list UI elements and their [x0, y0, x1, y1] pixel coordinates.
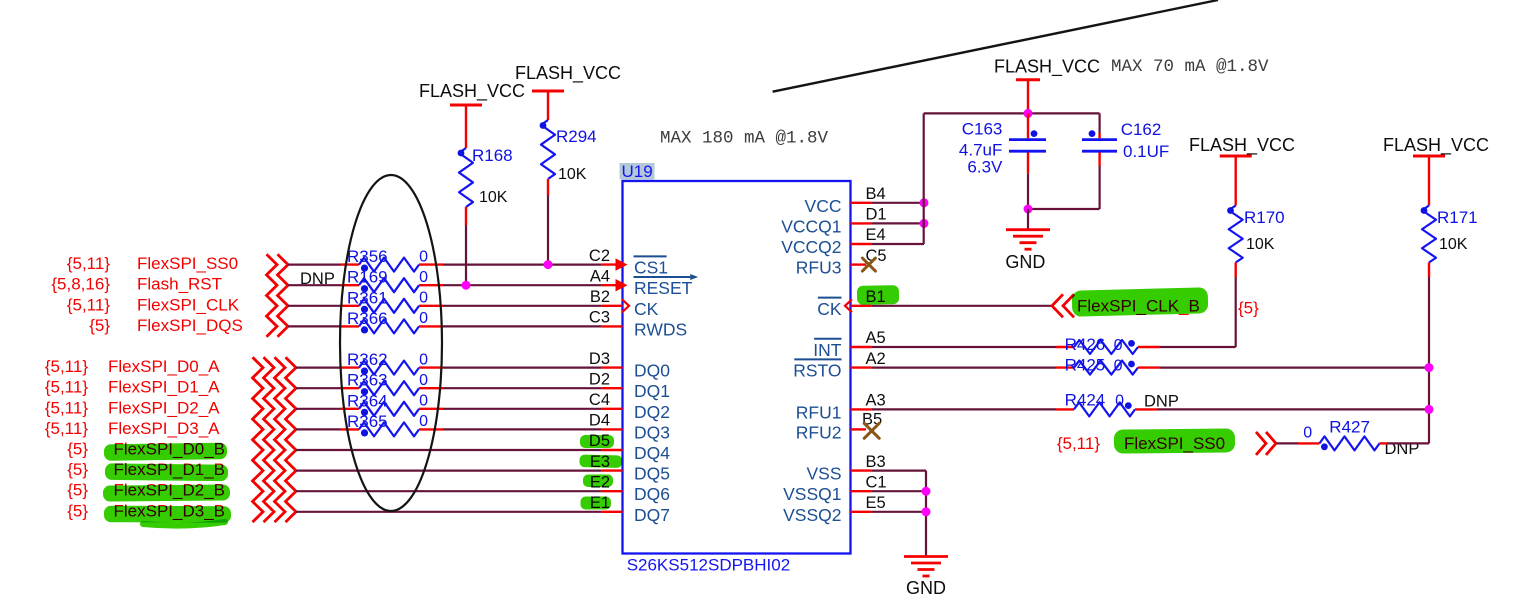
pin D5 stub	[602, 449, 623, 451]
svg-text:{5,8,16}: {5,8,16}	[51, 275, 110, 294]
svg-text:MAX 70 mA @1.8V: MAX 70 mA @1.8V	[1111, 57, 1269, 77]
resistor R170 10K	[1227, 206, 1285, 278]
svg-text:RESET: RESET	[634, 278, 693, 298]
svg-text:{5,11}: {5,11}	[67, 295, 111, 314]
svg-text:INT: INT	[813, 340, 842, 360]
wire D1_B	[296, 470, 602, 472]
resistor R363 0 ohm	[341, 371, 444, 396]
svg-text:D3: D3	[589, 350, 610, 368]
svg-text:A2: A2	[866, 350, 886, 368]
svg-text:0: 0	[419, 248, 428, 265]
wire to GND	[1027, 209, 1029, 230]
svg-text:FlexSPI_D1_A: FlexSPI_D1_A	[108, 378, 220, 397]
svg-text:R294: R294	[556, 127, 597, 146]
junction FLASH_VCC rail	[1024, 109, 1033, 118]
svg-text:{5,11}: {5,11}	[1057, 434, 1101, 453]
svg-text:DQ0: DQ0	[634, 361, 670, 381]
svg-text:10K: 10K	[1246, 236, 1275, 253]
U19 reference designator	[620, 163, 655, 180]
pin D1 stub	[851, 222, 872, 224]
svg-text:CK: CK	[817, 299, 842, 319]
wire CK_B	[871, 305, 1052, 307]
resistor R427 0 ohm	[1303, 418, 1379, 451]
resistor R365 0 ohm	[341, 412, 444, 437]
wire VCC to rail	[871, 202, 924, 204]
svg-text:0: 0	[419, 351, 428, 368]
wire D2_B	[296, 490, 602, 492]
svg-text:{5,11}: {5,11}	[67, 254, 111, 273]
svg-text:RFU3: RFU3	[796, 258, 842, 278]
wire row1 left	[288, 264, 341, 266]
svg-text:0: 0	[419, 393, 428, 410]
wire row3 left	[288, 305, 341, 307]
svg-text:{5}: {5}	[1238, 299, 1259, 318]
svg-text:U19: U19	[622, 162, 653, 181]
svg-text:0.1UF: 0.1UF	[1123, 142, 1169, 161]
svg-text:6.3V: 6.3V	[967, 158, 1003, 177]
wire row2 left	[288, 284, 341, 286]
pin B5 stub	[851, 428, 867, 430]
wire row3 right	[443, 305, 602, 307]
resistor R169 0 ohm	[341, 268, 444, 293]
svg-text:0: 0	[419, 269, 428, 286]
wire D0_B	[296, 449, 602, 451]
pin E3 stub	[602, 469, 623, 471]
svg-text:DQ4: DQ4	[634, 443, 670, 463]
junction VCCQ1 rail	[920, 219, 929, 228]
wire D3_B	[296, 511, 602, 513]
wire R426 to R170	[1138, 346, 1160, 348]
wire VSS	[871, 470, 926, 472]
svg-text:C163: C163	[962, 120, 1003, 139]
capacitor C162 0.1UF	[1082, 113, 1169, 209]
svg-text:FLASH_VCC: FLASH_VCC	[1189, 135, 1295, 156]
svg-text:R363: R363	[347, 371, 388, 390]
off-page connector FlexSPI_CLK_B	[1052, 294, 1063, 317]
wire RSTO to R425	[871, 367, 1056, 369]
off-page connector FlexSPI_SS0 out	[1256, 432, 1266, 455]
pin D4 stub	[602, 428, 623, 430]
ground symbol GND (VSS)	[904, 555, 948, 558]
junction R168/Flash_RST	[462, 281, 471, 290]
svg-text:FlexSPI_SS0: FlexSPI_SS0	[137, 254, 238, 273]
svg-text:DQ5: DQ5	[634, 464, 670, 484]
pin D3 stub	[602, 366, 623, 368]
pin A4 stub	[602, 284, 623, 286]
svg-text:R356: R356	[347, 247, 388, 266]
wire VCCQ1 to rail	[871, 222, 924, 224]
svg-text:DQ1: DQ1	[634, 381, 670, 401]
svg-text:C162: C162	[1121, 120, 1162, 139]
wire row4 right	[443, 325, 602, 327]
svg-text:D4: D4	[589, 412, 610, 430]
svg-text:R427: R427	[1329, 418, 1370, 437]
svg-text:4.7uF: 4.7uF	[959, 140, 1002, 159]
svg-text:B2: B2	[590, 288, 610, 306]
junction R294/FlexSPI_SS0	[544, 260, 553, 269]
resistor R426 0 ohm	[1065, 335, 1138, 354]
pin C1 stub	[851, 490, 872, 492]
pin C5 stub	[851, 263, 867, 265]
svg-text:R426: R426	[1065, 335, 1106, 354]
svg-text:C1: C1	[866, 473, 887, 491]
pin A2 stub	[851, 366, 872, 368]
svg-text:C4: C4	[589, 391, 610, 409]
wire D2_A left	[296, 408, 341, 410]
svg-text:FLASH_VCC: FLASH_VCC	[515, 63, 621, 84]
svg-text:DNP: DNP	[300, 270, 335, 288]
junction VSSQ2	[922, 507, 931, 516]
svg-text:0: 0	[1303, 425, 1312, 442]
svg-text:{5}: {5}	[67, 440, 88, 459]
pin B4 stub	[851, 202, 872, 204]
wire row2 right	[443, 284, 602, 286]
wire D1_A right	[443, 387, 602, 389]
wire VSS vertical	[925, 471, 927, 557]
svg-text:0: 0	[1114, 337, 1123, 354]
svg-text:FlexSPI_D3_A: FlexSPI_D3_A	[108, 419, 220, 438]
junction R171/RSTO	[1425, 363, 1434, 372]
svg-text:R366: R366	[347, 309, 388, 328]
svg-text:B3: B3	[866, 453, 886, 471]
svg-text:S26KS512SDPBHI02: S26KS512SDPBHI02	[627, 556, 791, 575]
svg-text:A4: A4	[590, 267, 610, 285]
wire D2_A right	[443, 408, 602, 410]
svg-text:R169: R169	[347, 268, 388, 287]
no-connect X on RFU3	[862, 258, 875, 271]
svg-text:FlexSPI_D2_A: FlexSPI_D2_A	[108, 398, 220, 417]
svg-text:C2: C2	[589, 247, 610, 265]
svg-text:{5,11}: {5,11}	[45, 357, 89, 376]
svg-text:DQ7: DQ7	[634, 505, 670, 525]
wire cap rail top	[924, 112, 1100, 114]
svg-text:VSSQ2: VSSQ2	[783, 505, 841, 525]
svg-text:R365: R365	[347, 412, 388, 431]
svg-text:D2: D2	[589, 370, 610, 388]
wire D0_A right	[443, 367, 602, 369]
svg-text:C5: C5	[866, 247, 887, 265]
svg-text:R171: R171	[1437, 208, 1478, 227]
wire cap rail bottom	[1027, 174, 1029, 209]
svg-text:R168: R168	[472, 146, 513, 165]
svg-text:R364: R364	[347, 391, 388, 410]
svg-text:10K: 10K	[479, 189, 508, 206]
wire VCCQ2 to rail	[871, 243, 924, 245]
svg-text:C3: C3	[589, 309, 610, 327]
svg-text:RFU2: RFU2	[796, 422, 842, 442]
pin A3 stub	[851, 408, 872, 410]
svg-text:R424: R424	[1065, 390, 1106, 409]
selection ellipse	[340, 175, 442, 511]
capacitor C163 4.7uF 6.3V	[959, 113, 1046, 176]
svg-text:10K: 10K	[558, 166, 587, 183]
wire R424 to R171 vertical	[1135, 408, 1158, 410]
svg-text:{5}: {5}	[67, 460, 88, 479]
resistor R362 0 ohm	[341, 350, 444, 375]
resistor R424 0 ohm	[1065, 390, 1135, 416]
pin A5 stub	[851, 346, 872, 348]
svg-text:DNP: DNP	[1144, 393, 1179, 411]
svg-text:VSS: VSS	[806, 464, 841, 484]
svg-text:VSSQ1: VSSQ1	[783, 484, 841, 504]
wire D0_A left	[296, 367, 341, 369]
wire row4 left	[288, 325, 341, 327]
svg-text:GND: GND	[1005, 252, 1045, 272]
svg-text:DQ2: DQ2	[634, 402, 670, 422]
resistor R425 0 ohm	[1065, 356, 1138, 375]
svg-text:0: 0	[419, 310, 428, 327]
junction R171/RFU1	[1425, 405, 1434, 414]
svg-text:DQ3: DQ3	[634, 422, 670, 442]
wire R425 to R171	[1138, 366, 1160, 368]
wire R170 to INT	[1235, 277, 1237, 347]
wire row1 right	[443, 264, 602, 266]
svg-text:FlexSPI_DQS: FlexSPI_DQS	[137, 316, 243, 335]
pin E2 stub	[602, 490, 623, 492]
junction VCC rail	[920, 198, 929, 207]
resistor R168 10K	[458, 146, 513, 225]
wire R294 to FlexSPI_SS0	[547, 195, 549, 265]
junction VSSQ1	[922, 487, 931, 496]
svg-text:FlexSPI_CLK: FlexSPI_CLK	[137, 295, 240, 314]
svg-text:{5,11}: {5,11}	[45, 419, 89, 438]
svg-text:CK: CK	[634, 299, 659, 319]
svg-text:FLASH_VCC: FLASH_VCC	[419, 81, 525, 102]
svg-text:E4: E4	[866, 226, 886, 244]
svg-text:VCCQ2: VCCQ2	[781, 237, 841, 257]
off-page connector chevrons group2	[253, 357, 264, 522]
svg-text:R170: R170	[1244, 208, 1285, 227]
wire SS0 to R427	[1277, 442, 1299, 444]
ground symbol GND (caps)	[1006, 228, 1050, 231]
pin D2 stub	[602, 387, 623, 389]
svg-text:B4: B4	[866, 185, 886, 203]
svg-text:{5,11}: {5,11}	[45, 378, 89, 397]
pin B2 stub	[602, 305, 623, 307]
svg-text:DQ6: DQ6	[634, 484, 670, 504]
svg-text:Flash_RST: Flash_RST	[137, 275, 222, 294]
svg-text:{5}: {5}	[89, 316, 110, 335]
resistor R366 0 ohm	[341, 309, 444, 334]
svg-text:FLASH_VCC: FLASH_VCC	[994, 57, 1100, 78]
wire R171 vertical	[1428, 277, 1430, 443]
svg-text:R361: R361	[347, 288, 388, 307]
svg-text:0: 0	[1114, 358, 1123, 375]
diagonal border line	[773, 0, 1218, 92]
svg-text:R425: R425	[1065, 356, 1106, 375]
no-connect X on RFU2	[864, 423, 879, 438]
svg-text:RSTO: RSTO	[793, 361, 841, 381]
svg-text:0: 0	[419, 290, 428, 307]
svg-text:MAX 180 mA @1.8V: MAX 180 mA @1.8V	[660, 129, 829, 149]
resistor R171 10K	[1421, 206, 1478, 278]
pin C4 stub	[602, 408, 623, 410]
svg-text:{5}: {5}	[67, 501, 88, 520]
resistor R361 0 ohm	[341, 288, 444, 313]
off-page connector chevrons group1	[267, 254, 278, 336]
pin E1 stub	[602, 511, 623, 513]
svg-text:VCCQ1: VCCQ1	[781, 216, 841, 236]
pin E4 stub	[851, 243, 872, 245]
svg-text:CS1: CS1	[634, 258, 668, 278]
svg-text:E5: E5	[866, 494, 886, 512]
pin C3 stub	[602, 325, 623, 327]
resistor R356 0 ohm	[341, 247, 444, 272]
svg-text:{5}: {5}	[67, 481, 88, 500]
wire D1_A left	[296, 387, 341, 389]
svg-text:RFU1: RFU1	[796, 402, 842, 422]
wire RFU1 to R424	[871, 408, 1056, 410]
svg-text:{5,11}: {5,11}	[45, 398, 89, 417]
wire INT to R426	[871, 346, 1056, 348]
pin B3 stub	[851, 469, 872, 471]
resistor R294 10K	[540, 120, 597, 195]
svg-text:R362: R362	[347, 350, 388, 369]
resistor R364 0 ohm	[341, 391, 444, 416]
wire R427 to R171 vertical	[1380, 442, 1388, 444]
svg-text:0: 0	[419, 413, 428, 430]
wire D3_A right	[443, 428, 602, 430]
wire VSSQ1	[871, 490, 926, 492]
pin C2 stub	[602, 263, 623, 265]
svg-text:D1: D1	[866, 206, 887, 224]
svg-text:FLASH_VCC: FLASH_VCC	[1383, 135, 1489, 156]
svg-text:0: 0	[419, 372, 428, 389]
op-amp U19 body	[623, 181, 851, 554]
svg-text:RWDS: RWDS	[634, 319, 687, 339]
svg-text:GND: GND	[906, 578, 946, 598]
pin E5 stub	[851, 511, 872, 513]
svg-text:FlexSPI_D0_A: FlexSPI_D0_A	[108, 357, 220, 376]
svg-text:A5: A5	[866, 329, 886, 347]
junction cap gnd	[1024, 205, 1033, 214]
wire VSSQ2	[871, 511, 926, 513]
pin B1 stub	[851, 305, 872, 307]
svg-text:10K: 10K	[1439, 236, 1468, 253]
wire D3_A left	[296, 428, 341, 430]
svg-text:A3: A3	[866, 392, 886, 410]
svg-text:0: 0	[1115, 392, 1124, 409]
svg-text:VCC: VCC	[805, 196, 842, 216]
wire R168 to Flash_RST	[465, 225, 467, 285]
